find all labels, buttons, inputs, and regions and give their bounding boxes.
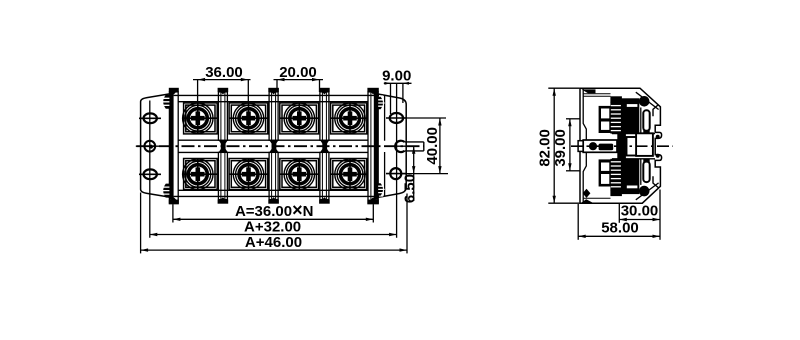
dim 9.00 line and arrows (384, 82, 412, 84)
rivet left bottom (161, 184, 169, 198)
dim 40.00 line and arrows (439, 118, 441, 174)
side top tab wedge (582, 89, 596, 93)
body white base (169, 95, 383, 196)
dim A+32.00 line and arrows (150, 234, 397, 236)
terminal recess squares row2 (184, 159, 367, 190)
svg-text:20.00: 20.00 (279, 64, 317, 81)
screw terminal r2c1 (183, 159, 218, 190)
svg-text:58.00: 58.00 (601, 220, 639, 237)
dim A=36.00xN extension lines (172, 204, 174, 222)
side outline (580, 88, 662, 203)
dim 6.50 line (413, 146, 415, 201)
separator bar 3 (268, 88, 279, 204)
left flange middle hole (136, 141, 169, 152)
dim A+46.00 line and arrows (141, 249, 407, 251)
svg-text:A=36.00×N: A=36.00×N (235, 200, 314, 220)
svg-text:30.00: 30.00 (621, 203, 659, 220)
dim 20.00 line and arrows (274, 79, 324, 81)
dim 30.00 extension lines (618, 204, 620, 223)
side bottom screw cluster (599, 159, 659, 197)
screw terminal r1c2 (229, 103, 268, 134)
dim 36.00 line and arrows (193, 79, 251, 81)
right end bar (367, 88, 378, 204)
screw terminal r2c4 (331, 159, 367, 190)
screw terminal r1c1 (183, 103, 218, 134)
side top mold lines (583, 93, 610, 95)
separator bar 4 (319, 88, 330, 204)
dim A=36.00xN line and arrows (173, 218, 373, 220)
svg-text:40.00: 40.00 (424, 127, 441, 165)
center capsule band col1 (176, 140, 222, 152)
left flange hole centerline vertical (149, 101, 151, 238)
side clamp cage (627, 137, 638, 156)
side left plate inner stepped line (583, 88, 586, 203)
side top screw cluster (599, 96, 659, 134)
dim 39.00 extension lines (566, 118, 580, 120)
side central black column (617, 101, 626, 191)
left flange bottom oval hole (139, 169, 161, 179)
side center pin (578, 140, 617, 152)
svg-text:A+32.00: A+32.00 (244, 218, 301, 235)
hourglass clamp at separator 4 (320, 140, 330, 153)
left mounting flange outline (141, 94, 171, 198)
screw terminal r2c3 (280, 159, 319, 190)
screw terminal r1c4 (331, 103, 367, 134)
hourglass clamp at separator 2 (218, 140, 228, 153)
svg-text:82.00: 82.00 (537, 129, 554, 167)
dim 39.00 line and arrows (569, 119, 571, 171)
dim 58.00 line and arrows (578, 235, 660, 237)
svg-text:39.00: 39.00 (552, 129, 569, 167)
dim 20.00 extension lines (276, 80, 278, 92)
right flange plate edge line (384, 95, 386, 197)
left flange top oval hole (139, 113, 161, 123)
svg-text:6.50: 6.50 (401, 174, 418, 203)
body bottom edge lines (178, 189, 368, 191)
main horizontal centerline (dash-dot) (137, 145, 424, 147)
right flange middle slot hole with tab (386, 141, 424, 152)
right flange bottom hole (386, 168, 407, 179)
dim 36.00 extension lines (197, 80, 199, 103)
right mounting flange outline (378, 94, 406, 197)
center capsule band col4 (326, 140, 371, 152)
left end bar (169, 88, 179, 204)
right flange top oval hole (386, 113, 407, 123)
hourglass clamp at separator 3 (269, 140, 279, 153)
side bottom anchor diamond (583, 189, 591, 198)
svg-text:9.00: 9.00 (382, 67, 411, 84)
rivet right top (378, 97, 384, 109)
center capsule band col3 (276, 140, 323, 152)
center capsule band col2 (225, 140, 272, 152)
dim 82.00 line and arrows (553, 88, 555, 203)
dim A+46.00 extension lines (140, 193, 142, 254)
dim 30.00 line and arrows (619, 219, 660, 221)
dim 58.00 extension line (577, 204, 579, 240)
svg-text:36.00: 36.00 (205, 64, 243, 81)
rivet right bottom (378, 183, 384, 195)
side right edge curl tips (656, 135, 660, 139)
side bottom wedge (581, 199, 593, 203)
terminal recess squares row1 (184, 103, 367, 134)
svg-text:A+46.00: A+46.00 (245, 234, 302, 251)
separator bar 2 (218, 88, 229, 204)
body top edge lines (174, 94, 379, 96)
side inner chamfer lines (636, 92, 659, 109)
right flange hole centerline vertical (396, 83, 398, 238)
rivet left top (161, 95, 169, 109)
screw terminal r2c2 (229, 159, 268, 190)
side centerline dash-dot (571, 145, 673, 147)
dim 40.00 extension lines (404, 117, 447, 119)
dim 82.00 extension lines (548, 87, 579, 89)
dim 9.00 extension lines (390, 83, 392, 114)
screw terminal r1c3 (280, 103, 319, 134)
